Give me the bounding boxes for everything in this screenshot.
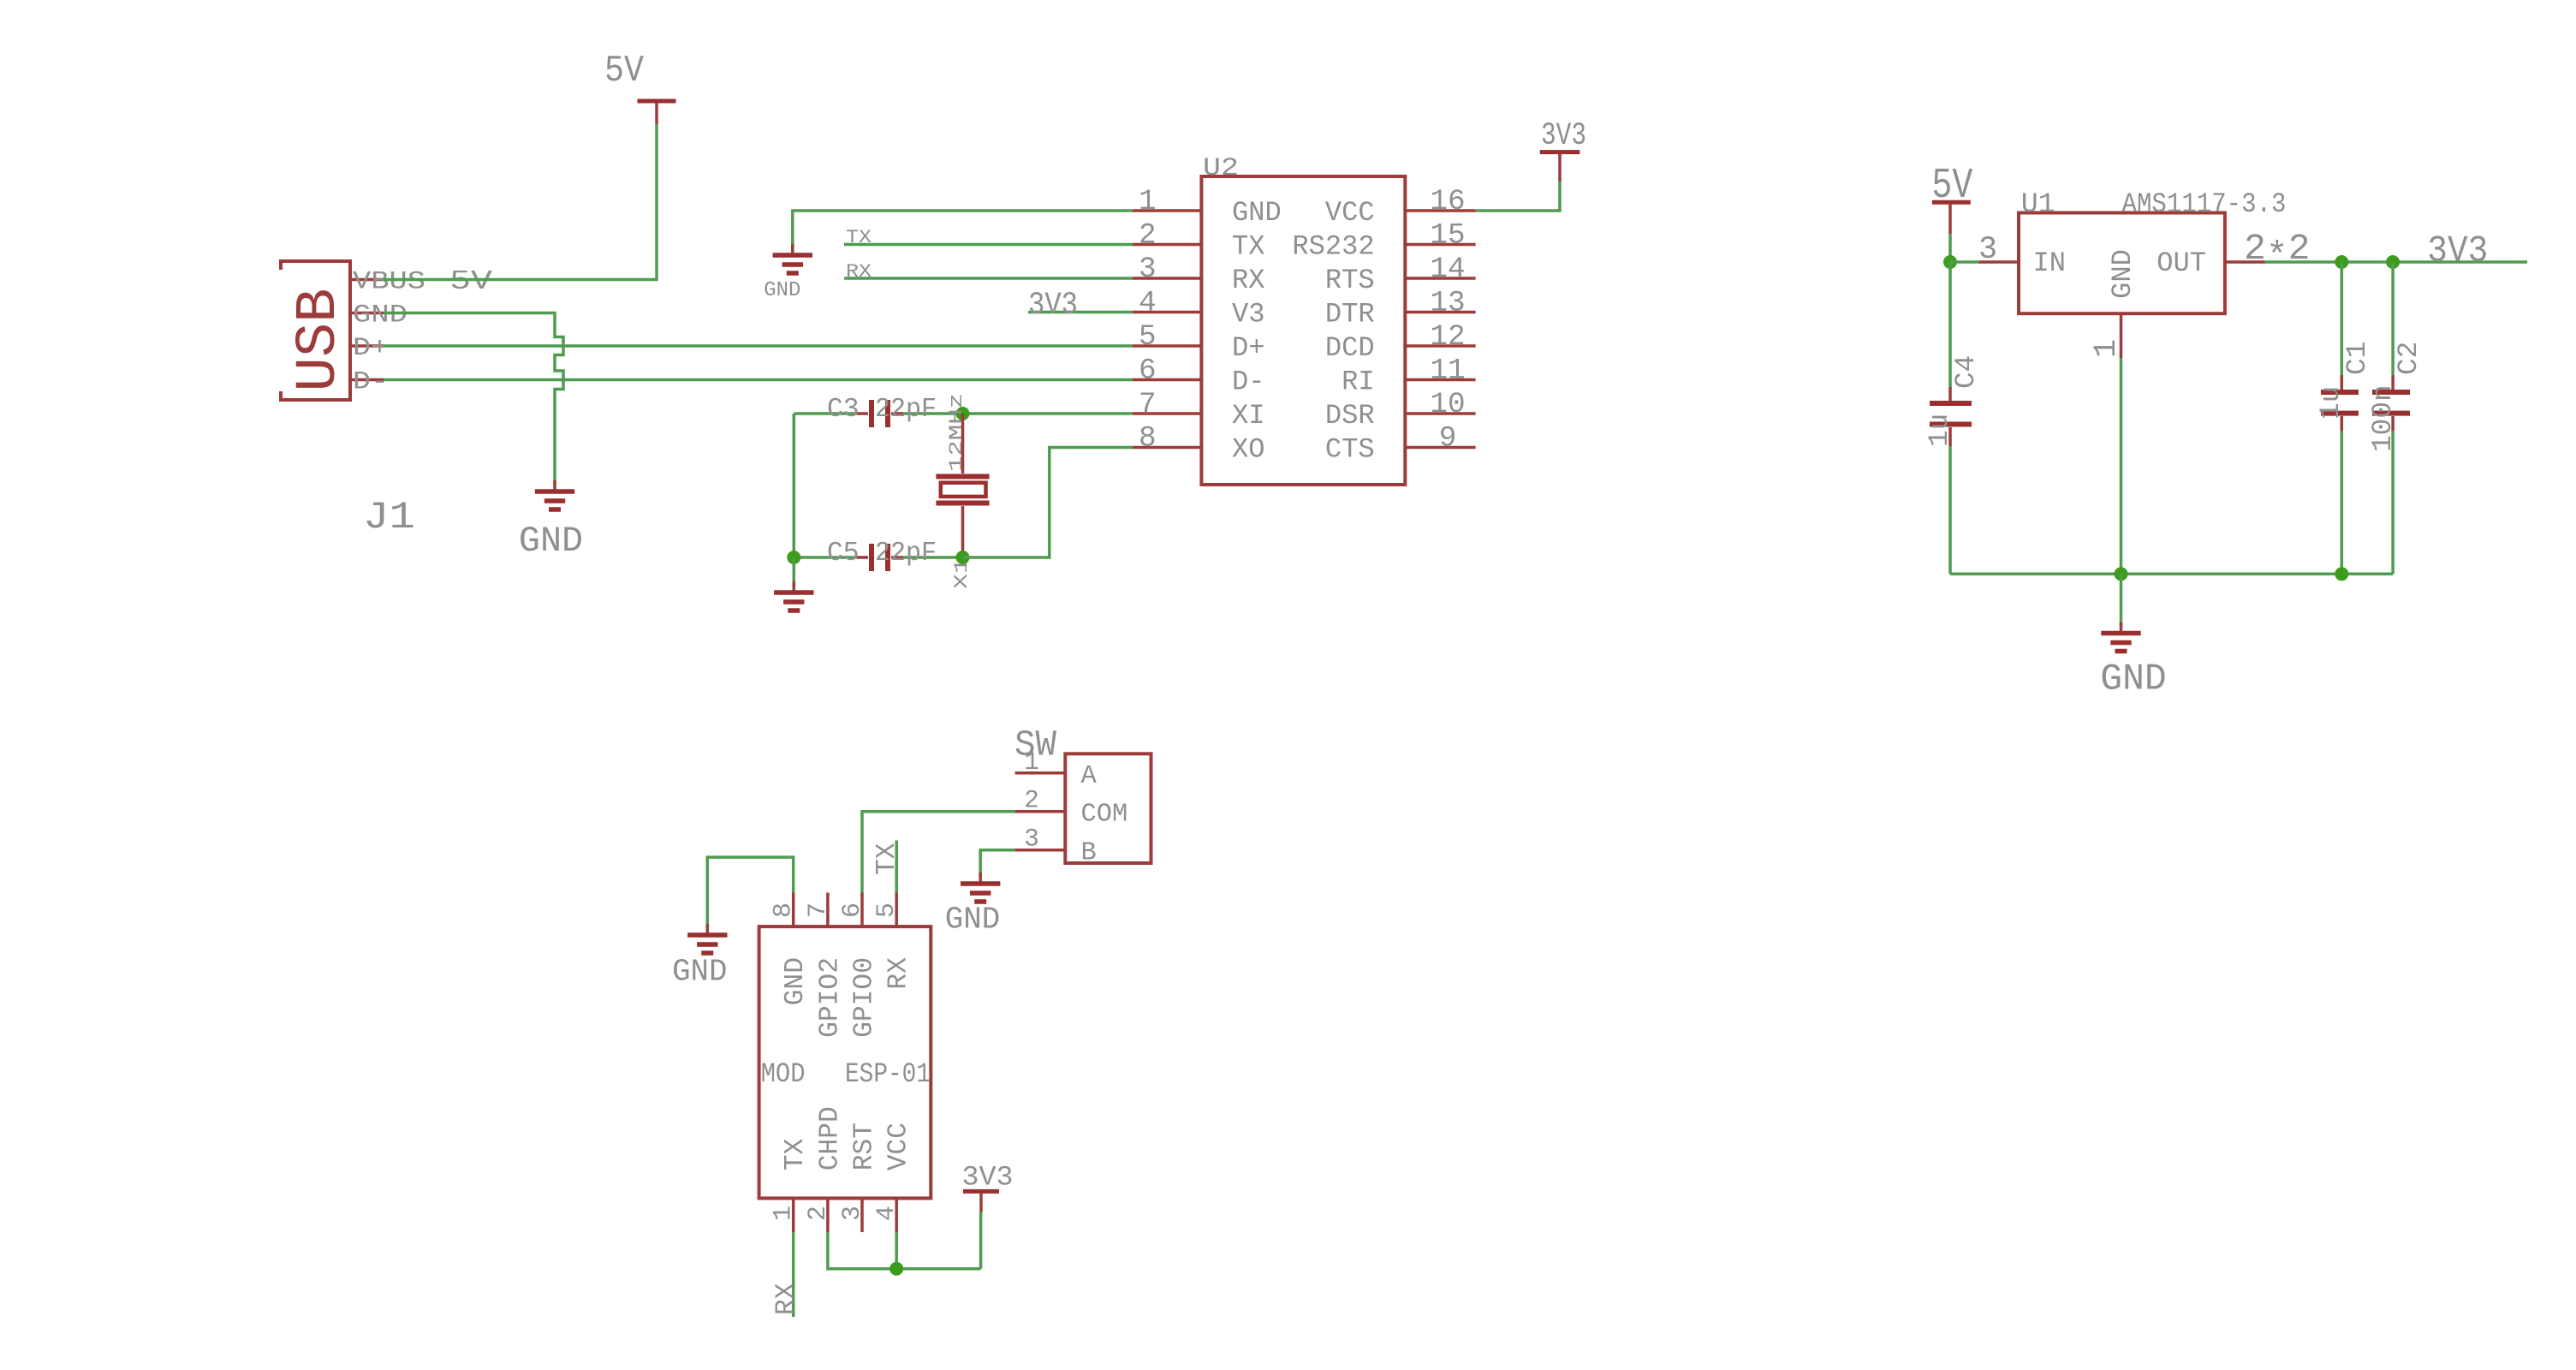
svg-text:15: 15 bbox=[1430, 219, 1465, 253]
U1 pin 3 IN bbox=[1978, 232, 2066, 279]
svg-text:1: 1 bbox=[1024, 748, 1039, 777]
svg-text:TX: TX bbox=[781, 1139, 811, 1171]
svg-text:3: 3 bbox=[1978, 232, 1997, 268]
ESP-01 pin 5 RX bbox=[872, 893, 914, 990]
svg-text:4: 4 bbox=[872, 1206, 901, 1221]
U2 pin 16 VCC bbox=[1325, 185, 1476, 229]
wire C1 vertical bbox=[2341, 262, 2344, 574]
svg-text:RX: RX bbox=[884, 957, 914, 990]
wire 5V vertical to bottom rail bbox=[1948, 262, 1952, 574]
svg-text:4: 4 bbox=[1139, 287, 1157, 320]
svg-text:3V3: 3V3 bbox=[1541, 118, 1586, 153]
U2 pin 1 GND bbox=[1133, 185, 1282, 229]
wire ESP-01 pin4 VCC to 3V3 bbox=[895, 1232, 898, 1269]
power symbol 3V3 at ESP-01 bbox=[979, 1191, 983, 1212]
svg-text:GND: GND bbox=[2100, 658, 2167, 700]
wire VBUS to 5V supply bbox=[384, 124, 657, 280]
wire 5V down to IN bbox=[1948, 234, 1952, 262]
ESP-01 pin 8 GND bbox=[769, 893, 812, 1006]
wire 3V3 supply down to VCC net bbox=[979, 1212, 983, 1269]
svg-text:GND: GND bbox=[1232, 197, 1282, 229]
IC U2 CH340 box bbox=[1201, 176, 1405, 485]
svg-text:TX: TX bbox=[1232, 231, 1265, 263]
switch SW box bbox=[1065, 753, 1151, 863]
svg-text:16: 16 bbox=[1430, 185, 1465, 218]
svg-text:100n: 100n bbox=[2367, 384, 2399, 452]
junction GND rail / C1 bbox=[2335, 567, 2348, 581]
svg-text:C4: C4 bbox=[1950, 355, 1982, 389]
svg-text:1u: 1u bbox=[1924, 414, 1955, 447]
U2 pin 7 XI bbox=[1133, 388, 1265, 432]
svg-text:XO: XO bbox=[1232, 434, 1265, 466]
capacitor C3 22pF bbox=[869, 400, 874, 427]
wire RX net to U2 pin 3 bbox=[844, 277, 1133, 280]
SW pin 3 B bbox=[1015, 825, 1097, 868]
svg-text:6: 6 bbox=[1139, 354, 1157, 388]
svg-text:DSR: DSR bbox=[1325, 400, 1375, 432]
svg-text:13: 13 bbox=[1430, 287, 1465, 320]
wire OUT to 3V3 bbox=[2265, 260, 2528, 264]
U2 pin 9 CTS bbox=[1325, 422, 1476, 466]
svg-text:RX: RX bbox=[772, 1283, 802, 1315]
wire 3V3 net to U2 pin 4 bbox=[1028, 311, 1133, 314]
svg-text:GND: GND bbox=[764, 279, 800, 302]
svg-text:7: 7 bbox=[1139, 388, 1157, 421]
J1 pin D- bbox=[350, 378, 384, 382]
svg-text:5V: 5V bbox=[604, 51, 644, 92]
svg-text:U1: U1 bbox=[2021, 188, 2055, 220]
wire USB GND to ground (with jogs over D+/D-) bbox=[384, 313, 563, 485]
svg-text:2: 2 bbox=[1024, 787, 1039, 815]
svg-text:C1: C1 bbox=[2341, 342, 2373, 375]
wire TX net to U2 pin 2 bbox=[844, 243, 1133, 247]
svg-text:GND: GND bbox=[2107, 249, 2139, 299]
wire C2 vertical bbox=[2391, 262, 2395, 574]
J1 pin D+ bbox=[350, 344, 384, 348]
ESP-01 pin 1 TX bbox=[769, 1139, 812, 1232]
U2 pin 6 D- bbox=[1133, 354, 1265, 398]
svg-text:6: 6 bbox=[837, 902, 866, 918]
svg-text:7: 7 bbox=[803, 902, 832, 918]
ESP-01 pin 6 GPIO0 bbox=[837, 893, 880, 1038]
svg-text:RTS: RTS bbox=[1325, 265, 1375, 296]
svg-text:5: 5 bbox=[872, 902, 901, 918]
svg-text:RX: RX bbox=[846, 260, 872, 283]
svg-text:8: 8 bbox=[769, 902, 798, 918]
wire XI from junction to U2 pin 7 bbox=[963, 412, 1133, 415]
svg-text:RX: RX bbox=[1232, 265, 1265, 296]
wire ESP-01 pin5 RX (TX net) bbox=[895, 841, 898, 893]
power symbol 5V at regulator bbox=[1932, 202, 1971, 234]
svg-text:GND: GND bbox=[781, 957, 811, 1005]
svg-text:IN: IN bbox=[2033, 247, 2067, 279]
U2 pin 8 XO bbox=[1133, 422, 1265, 466]
svg-text:U2: U2 bbox=[1203, 153, 1239, 182]
svg-text:TX: TX bbox=[846, 226, 872, 248]
junction VCC node bbox=[889, 1262, 903, 1276]
wire U1 GND to bottom rail bbox=[2120, 358, 2123, 574]
U2 pin 14 RTS bbox=[1325, 253, 1476, 296]
svg-text:DTR: DTR bbox=[1325, 299, 1375, 331]
ESP-01 pin 2 CHPD bbox=[803, 1106, 846, 1232]
svg-text:5V: 5V bbox=[449, 267, 492, 297]
svg-text:A: A bbox=[1081, 762, 1098, 791]
SW pin 1 A bbox=[1015, 748, 1098, 791]
svg-text:GPIO0: GPIO0 bbox=[850, 957, 880, 1038]
ground symbol near U2 pin1 bbox=[791, 244, 794, 255]
svg-text:TX: TX bbox=[872, 843, 902, 875]
svg-text:RI: RI bbox=[1342, 366, 1375, 398]
svg-text:1: 1 bbox=[769, 1206, 798, 1221]
wire XO net: C5 row bbox=[794, 556, 857, 559]
module MOD ESP-01 box bbox=[759, 926, 931, 1198]
svg-text:11: 11 bbox=[1430, 354, 1465, 388]
svg-text:VCC: VCC bbox=[1325, 197, 1375, 229]
svg-text:D-: D- bbox=[1232, 366, 1265, 398]
svg-text:CHPD: CHPD bbox=[815, 1106, 845, 1170]
svg-text:XI: XI bbox=[1232, 400, 1265, 432]
svg-text:1: 1 bbox=[1139, 185, 1157, 218]
power symbol 3V3 at U2 bbox=[1558, 152, 1562, 182]
wire XO to U2 pin 8 bbox=[963, 448, 1133, 558]
power symbol 5V bbox=[655, 101, 658, 124]
svg-text:B: B bbox=[1081, 839, 1097, 868]
wire C5 left to ground bbox=[793, 557, 796, 586]
junction GND rail / U1 GND bbox=[2115, 567, 2128, 581]
capacitor C5 22pF bbox=[869, 544, 874, 571]
svg-text:12MHz: 12MHz bbox=[945, 393, 967, 472]
svg-text:3: 3 bbox=[1139, 253, 1157, 286]
svg-text:J1: J1 bbox=[363, 497, 415, 539]
svg-text:USB: USB bbox=[287, 289, 352, 392]
svg-text:GND: GND bbox=[353, 301, 408, 330]
svg-text:GND: GND bbox=[519, 521, 583, 562]
wire D- net USB to U2 pin 6 bbox=[384, 378, 1133, 382]
junction C1 top node bbox=[2335, 255, 2348, 269]
junction 5V/IN node bbox=[1943, 255, 1957, 269]
svg-text:22pF: 22pF bbox=[875, 395, 937, 425]
U2 pin 13 DTR bbox=[1325, 287, 1476, 331]
U2 pin 11 RI bbox=[1342, 354, 1476, 398]
svg-text:CTS: CTS bbox=[1325, 434, 1375, 466]
capacitor C2 100n bbox=[2372, 375, 2410, 431]
svg-text:2: 2 bbox=[803, 1206, 832, 1221]
svg-text:3V3: 3V3 bbox=[1028, 288, 1078, 323]
svg-text:D+: D+ bbox=[353, 333, 389, 362]
wire ESP-01 pin2 CHPD to 3V3 bbox=[828, 1232, 981, 1269]
crystal X1 12MHz bbox=[936, 414, 989, 557]
wire XI net: C3 row bbox=[794, 412, 857, 415]
svg-text:10: 10 bbox=[1430, 388, 1465, 421]
svg-text:COM: COM bbox=[1081, 801, 1128, 830]
svg-text:22pF: 22pF bbox=[875, 539, 937, 569]
svg-text:D-: D- bbox=[353, 367, 389, 396]
svg-text:VBUS: VBUS bbox=[353, 267, 425, 296]
svg-text:C2: C2 bbox=[2393, 342, 2424, 375]
J1 pin GND bbox=[350, 312, 384, 315]
wire ESP-01 pin1 TX (RX net) bbox=[792, 1232, 795, 1317]
wire SW pin3 B to ground bbox=[980, 850, 1014, 877]
wire 5V to U1 IN bbox=[1950, 260, 1979, 264]
ground symbol below SW bbox=[979, 873, 982, 884]
regulator U1 box bbox=[2019, 213, 2225, 314]
junction C2 top node bbox=[2386, 255, 2400, 269]
svg-text:8: 8 bbox=[1139, 422, 1157, 456]
wire U2 pin1 to ground bbox=[793, 211, 1133, 248]
svg-text:GND: GND bbox=[945, 902, 1000, 938]
svg-text:5: 5 bbox=[1139, 320, 1157, 354]
wire GND rail to ground symbol bbox=[2120, 574, 2123, 626]
junction XO node bbox=[956, 551, 970, 564]
wire D+ net USB to U2 pin 5 bbox=[384, 344, 1133, 348]
ESP-01 pin 7 GPIO2 bbox=[803, 893, 846, 1038]
svg-text:GND: GND bbox=[672, 954, 727, 989]
U1 pin 1 GND stub bbox=[2089, 313, 2125, 358]
svg-text:DCD: DCD bbox=[1325, 332, 1375, 364]
svg-text:1u: 1u bbox=[2315, 386, 2347, 420]
svg-text:ESP-01: ESP-01 bbox=[845, 1058, 931, 1090]
ground symbol left of ESP-01 bbox=[706, 924, 710, 935]
svg-text:GPIO2: GPIO2 bbox=[815, 957, 845, 1038]
capacitor C1 1u bbox=[2321, 375, 2359, 431]
J1 pin VBUS bbox=[350, 278, 384, 282]
junction C5 left node bbox=[787, 551, 800, 564]
U2 pin 10 DSR bbox=[1325, 388, 1476, 432]
capacitor C4 1u bbox=[1930, 387, 1972, 446]
svg-text:D+: D+ bbox=[1232, 332, 1265, 364]
svg-text:RS232: RS232 bbox=[1292, 231, 1374, 263]
U2 pin 4 V3 bbox=[1133, 287, 1265, 331]
svg-text:C3: C3 bbox=[827, 395, 860, 425]
U2 pin 15 RS232 bbox=[1292, 219, 1475, 263]
U2 pin 12 DCD bbox=[1325, 320, 1476, 364]
U2 pin 3 RX bbox=[1133, 253, 1265, 296]
ground symbol under USB bbox=[553, 480, 556, 491]
ground symbol below C5 bbox=[793, 581, 796, 593]
svg-text:9: 9 bbox=[1439, 422, 1457, 456]
svg-text:1: 1 bbox=[2089, 339, 2125, 358]
svg-text:VCC: VCC bbox=[884, 1123, 914, 1170]
wire ESP-01 pin8 to ground bbox=[707, 857, 793, 928]
U1 pin 2 OUT bbox=[2157, 228, 2310, 279]
bottom GND rail wire bbox=[1950, 573, 2393, 576]
wire left vertical C3 to C5 bbox=[793, 414, 796, 557]
ESP-01 pin 3 RST bbox=[837, 1123, 880, 1232]
ground symbol regulator bbox=[2120, 622, 2123, 634]
svg-text:2: 2 bbox=[1139, 219, 1157, 253]
ESP-01 pin 4 VCC bbox=[872, 1123, 914, 1232]
svg-text:3: 3 bbox=[1024, 825, 1039, 854]
svg-text:MOD: MOD bbox=[761, 1058, 806, 1090]
connector J1 USB outline bbox=[281, 261, 352, 400]
svg-text:3: 3 bbox=[837, 1206, 866, 1221]
svg-text:V3: V3 bbox=[1232, 299, 1265, 331]
svg-text:3V3: 3V3 bbox=[962, 1161, 1014, 1193]
svg-text:OUT: OUT bbox=[2157, 247, 2206, 279]
svg-text:14: 14 bbox=[1430, 253, 1465, 286]
junction XI node bbox=[956, 407, 970, 420]
U2 pin 5 D+ bbox=[1133, 320, 1265, 364]
svg-text:C5: C5 bbox=[827, 539, 860, 569]
SW pin 2 COM bbox=[1015, 787, 1128, 830]
svg-text:RST: RST bbox=[850, 1123, 880, 1170]
svg-text:3V3: 3V3 bbox=[2427, 230, 2488, 273]
wire ESP-01 pin6 GPIO0 to SW COM bbox=[862, 812, 1015, 893]
svg-text:12: 12 bbox=[1430, 320, 1465, 354]
U2 pin 2 TX bbox=[1133, 219, 1265, 263]
wire U2 pin16 VCC to 3V3 supply bbox=[1476, 182, 1560, 211]
svg-text:AMS1117-3.3: AMS1117-3.3 bbox=[2122, 188, 2287, 220]
